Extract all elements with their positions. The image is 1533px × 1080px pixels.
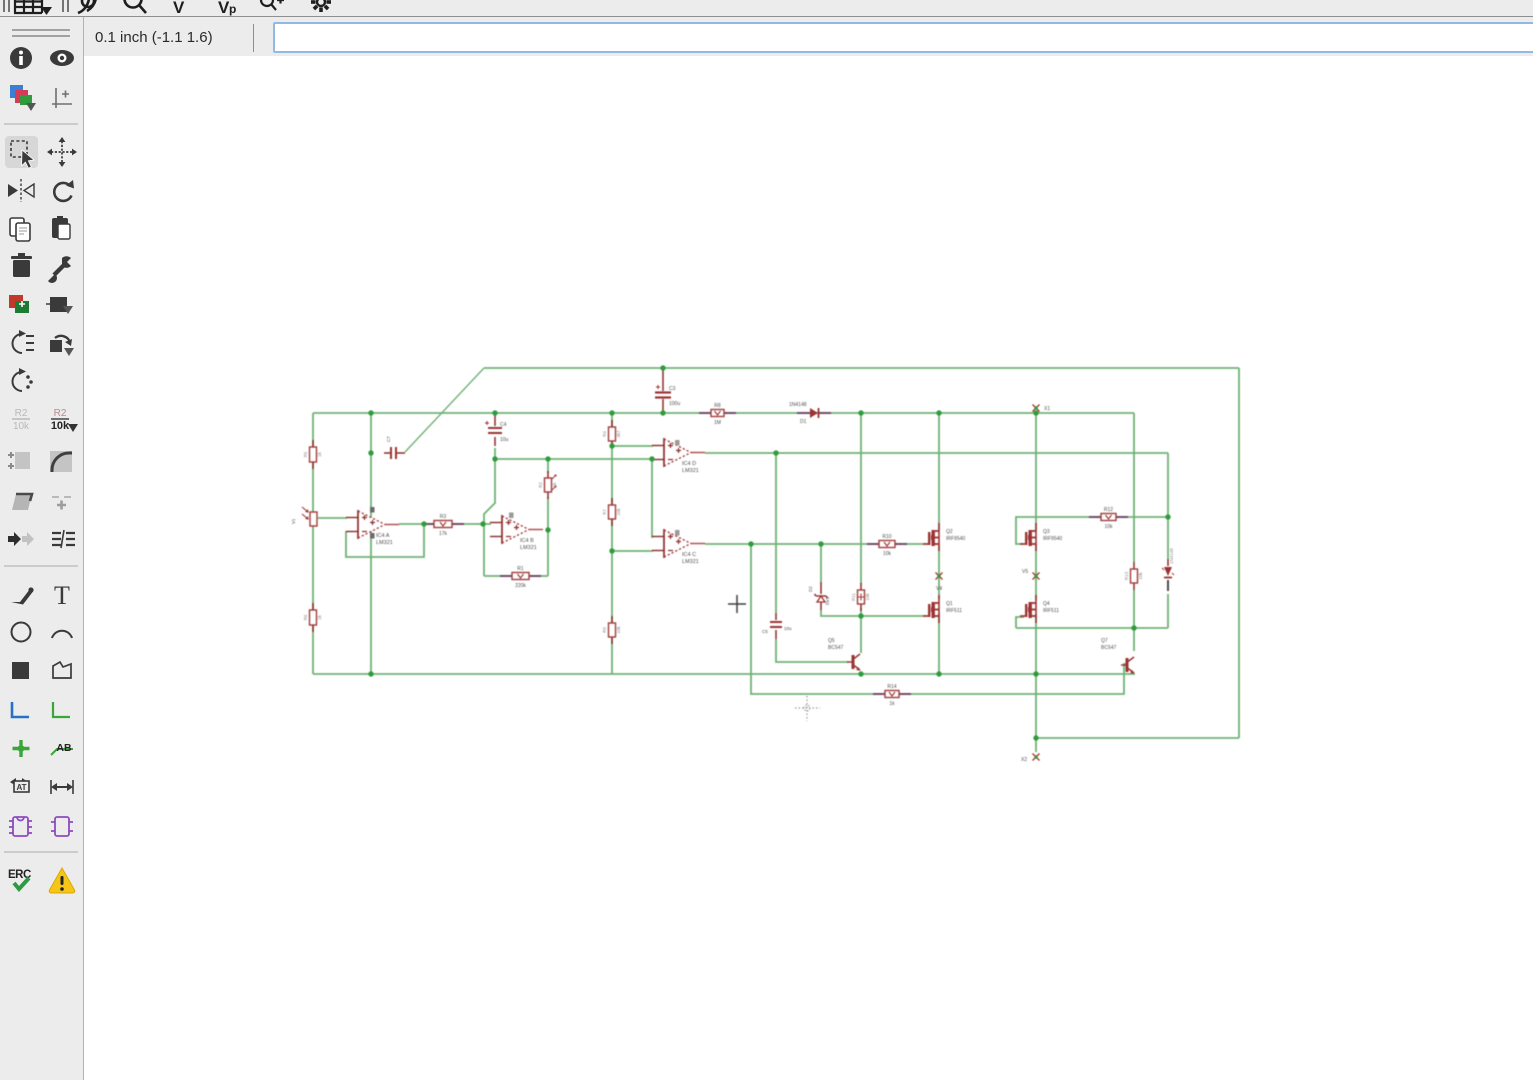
wire v495 [484,448,495,576]
op-amp IC4 A (A) [346,507,399,546]
wire outC [705,543,869,545]
transistor Q2 (Q2 IRF9540 P) [923,523,965,551]
svg-text:17k: 17k [439,531,448,537]
svg-text:IC4 D: IC4 D [682,461,696,467]
junction j20 [858,613,863,618]
svg-text:R2: R2 [538,482,543,488]
svg-text:BC547: BC547 [828,645,844,651]
wire v1134a [1133,413,1135,562]
svg-text:100u: 100u [669,401,680,407]
svg-text:5V1: 5V1 [825,596,830,605]
transistor Q4 (Q4 IRF511 N) [1020,595,1059,623]
junction j22 [1131,625,1136,630]
wire v1036c [1035,614,1037,674]
resistor R10 [867,534,907,557]
svg-text:C3: C3 [669,386,676,392]
wire bottom738 [1036,737,1239,739]
wire v822 [820,544,822,582]
wire v822b [821,610,927,616]
wire botRail [313,673,1135,675]
svg-text:R5: R5 [303,451,308,457]
wire outD [705,452,1168,454]
mouse crosshair cursor [728,595,746,613]
resistor R4 [602,420,621,448]
svg-text:IC4 A: IC4 A [376,533,390,539]
junction j27 [1033,735,1038,740]
svg-text:1M: 1M [714,420,721,426]
wire w628 [1016,627,1168,629]
svg-text:4k7: 4k7 [616,430,621,438]
junction j26 [1033,671,1038,676]
light sensor V1 [291,507,317,526]
svg-text:C7: C7 [386,436,391,442]
junction j15 [545,527,550,532]
junction j12 [492,456,497,461]
wire v1168b [1167,594,1169,628]
svg-text:R14: R14 [887,684,896,690]
wire v776 [775,453,777,613]
junction j9 [773,450,778,455]
net flag V5 (V5) [1022,569,1040,580]
svg-text:Q4: Q4 [1043,601,1050,607]
wire v1036b [1035,544,1037,600]
svg-text:10k: 10k [883,551,892,557]
svg-text:10k: 10k [865,593,870,601]
diode D4 1N4148 [1162,548,1174,591]
wire q3gate [1016,517,1097,544]
resistor R14 [873,684,911,707]
svg-text:1k: 1k [317,614,322,620]
junction j5 [858,410,863,415]
svg-text:D1: D1 [800,419,807,425]
wire v861a [860,413,862,584]
resistor R1 [500,566,541,589]
svg-text:LM321: LM321 [376,540,393,546]
svg-text:R4: R4 [602,431,607,437]
svg-text:V1: V1 [291,518,296,524]
junction j13 [421,521,426,526]
wire w518 [318,517,347,519]
zener diode D2 [808,582,830,610]
svg-text:V5: V5 [1022,569,1028,575]
resistor R3 [422,514,464,537]
wire rightV [1238,368,1240,738]
wire w517b [1125,516,1168,518]
wire v1036a [1035,413,1037,530]
wire v776b [776,639,848,662]
wire v939b [938,545,940,599]
net flag X1 (X1) [1033,405,1051,413]
junction j19 [818,541,823,546]
svg-text:Q7: Q7 [1101,638,1108,644]
wire v548b [547,530,549,576]
junction j14 [480,521,485,526]
wire w576a [484,575,507,577]
svg-text:10k: 10k [616,626,621,634]
capacitor C4 [485,414,509,446]
junction j7 [1033,410,1038,415]
transistor Q7 (Q7 BC547 NPN) [1101,638,1135,674]
resistor R11 [851,583,870,611]
svg-text:R1: R1 [517,566,524,572]
wire w446 [612,445,653,447]
svg-text:1N4148: 1N4148 [1169,548,1174,564]
junction j18 [748,541,753,546]
svg-text:Q1: Q1 [946,601,953,607]
svg-text:10u: 10u [500,437,509,443]
wire v1134b [1133,590,1135,651]
wire v612 [611,413,613,674]
resistor R9 [602,616,621,644]
svg-text:R9: R9 [602,627,607,633]
wire w459 [495,458,653,460]
wire w694b [904,664,1126,694]
junction j21 [1165,514,1170,519]
junction j11 [649,456,654,461]
wire v548c [547,497,549,530]
wire v1168a [1167,453,1169,559]
capacitor C5 [762,613,792,639]
net flag V4 (V4) [936,573,943,593]
svg-text:1k: 1k [889,701,895,707]
junction j24 [858,671,863,676]
resistor R6 [303,603,322,632]
capacitor C7 [384,436,405,459]
svg-text:IRF9540: IRF9540 [1043,536,1062,542]
junction j25 [936,671,941,676]
junction j4 [660,410,665,415]
svg-text:R13: R13 [1124,571,1129,580]
junction j6 [936,410,941,415]
junction j28 [660,365,665,370]
junction j17 [609,548,614,553]
svg-text:V4: V4 [936,586,942,592]
svg-text:10u: 10u [784,626,792,631]
wire v1036d [1035,674,1037,752]
svg-text:X1: X1 [1044,406,1050,412]
svg-text:R6: R6 [303,614,308,620]
svg-text:R11: R11 [851,593,856,601]
wire w551 [612,550,653,552]
resistor R13 [1124,562,1143,590]
wire v751 [751,544,880,694]
wire railB [313,412,1134,414]
transistor Q3 (Q3 IRF9540 P) [1020,523,1062,551]
junction j23 [368,671,373,676]
svg-text:IC4 C: IC4 C [682,552,696,558]
sheet origin marker [795,696,820,721]
resistor R7 [602,498,621,526]
svg-text:Q3: Q3 [1043,529,1050,535]
svg-text:IRF9540: IRF9540 [946,536,965,542]
wire v652 [652,459,653,537]
svg-text:LM321: LM321 [520,545,537,551]
wire w524a [399,523,430,525]
svg-text:R12: R12 [1104,507,1113,513]
resistor R5 [303,440,322,469]
svg-text:10k: 10k [616,508,621,516]
wire diag [405,368,484,452]
svg-text:C5: C5 [762,629,768,634]
svg-text:BC547: BC547 [1101,645,1117,651]
wire v424 [346,524,424,557]
resistor R2 [538,471,557,499]
svg-text:D2: D2 [808,586,813,592]
svg-text:1k: 1k [317,451,322,457]
wire v548a [547,459,549,473]
wire outC2 [905,543,928,545]
svg-text:10k: 10k [1138,572,1143,580]
resistor R8 [699,403,736,426]
wire v939c [938,613,940,674]
junction j16 [609,443,614,448]
wire v939a [938,413,940,530]
svg-text:Q5: Q5 [828,638,835,644]
svg-text:R7: R7 [602,509,607,515]
svg-text:IRF511: IRF511 [946,608,962,614]
svg-text:IC4 B: IC4 B [520,538,534,544]
junction j1 [368,410,373,415]
svg-text:10k: 10k [1104,524,1113,530]
wire w576b [538,575,548,577]
svg-text:LM321: LM321 [682,468,699,474]
wire leftV [312,413,314,674]
transistor Q5 (Q5 BC547 NPN) [828,638,861,671]
op-amp IC4 B (B) [490,513,543,552]
transistor Q1 (Q1 IRF511 N) [923,595,962,623]
junction j3 [609,410,614,415]
svg-text:R3: R3 [440,514,447,520]
wire v371 [370,413,372,674]
svg-text:R8: R8 [714,403,721,409]
svg-text:LM321: LM321 [682,559,699,565]
svg-text:1k: 1k [552,482,557,488]
svg-text:IRF511: IRF511 [1043,608,1059,614]
svg-text:X2: X2 [1021,757,1027,763]
resistor R12 [1089,507,1128,530]
wire top [484,367,1239,369]
wire w524b [457,523,491,525]
junction j8 [368,450,373,455]
capacitor C3 [655,368,680,413]
diode D1 1N4148 [789,402,831,425]
svg-text:R10: R10 [882,534,891,540]
svg-text:C4: C4 [500,422,507,428]
wire v861b [860,608,862,653]
wire q4gate [1016,617,1024,628]
junction j2 [492,410,497,415]
net flag X2 (X2) [1021,754,1040,764]
svg-text:1N4148: 1N4148 [789,402,807,408]
op-amp IC4 C (C) [652,529,705,565]
op-amp IC4 D (D) [652,438,705,474]
svg-text:Q2: Q2 [946,529,953,535]
svg-text:220k: 220k [515,583,526,589]
junction j10 [545,456,550,461]
